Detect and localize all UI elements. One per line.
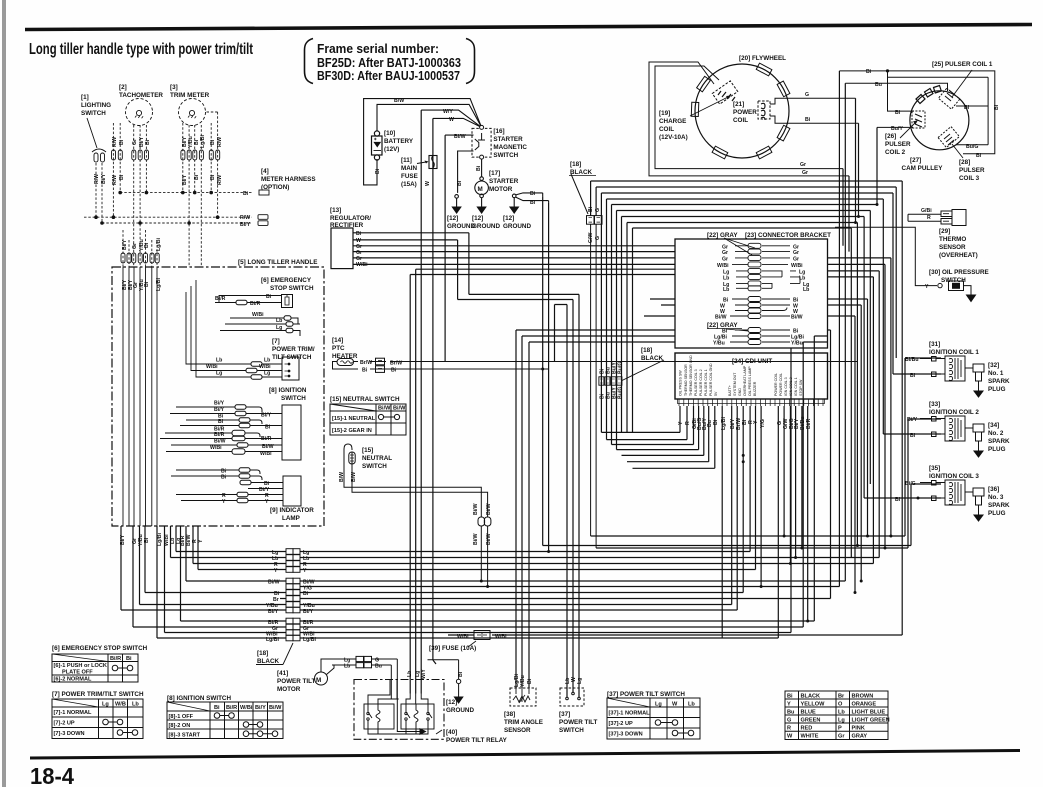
svg-text:Bi/R: Bi/R [250, 301, 261, 307]
svg-text:SENSOR: SENSOR [939, 244, 966, 251]
[18] BLACK connector stack near CDI [599, 360, 664, 385]
svg-text:R/W: R/W [112, 137, 118, 147]
svg-text:Gr: Gr [800, 162, 806, 168]
svg-text:GROUND: GROUND [472, 223, 500, 230]
bottom rule [30, 751, 1020, 759]
svg-text:Bi/Y: Bi/Y [261, 413, 272, 419]
svg-text:R/W: R/W [217, 137, 223, 147]
svg-text:W/B: W/B [115, 702, 126, 708]
svg-text:M: M [478, 186, 483, 193]
svg-text:Lg/Bi: Lg/Bi [156, 277, 162, 291]
svg-text:Lb: Lb [803, 287, 809, 293]
wire row199 [607, 199, 884, 377]
svg-text:[1]: [1] [81, 94, 89, 101]
svg-text:LAMP: LAMP [282, 515, 300, 522]
svg-text:[9] INDICATOR: [9] INDICATOR [270, 507, 314, 514]
svg-text:SPARK: SPARK [988, 378, 1010, 385]
svg-text:Lb: Lb [723, 275, 729, 281]
wire charge Gr verticals [843, 169, 849, 252]
svg-text:Lb: Lb [407, 671, 413, 677]
svg-text:Y: Y [265, 499, 269, 505]
svg-text:Y/Bu: Y/Bu [713, 341, 725, 347]
svg-text:PINK: PINK [852, 726, 865, 732]
svg-text:PULSER: PULSER [885, 141, 911, 148]
svg-text:POWER TRIM/: POWER TRIM/ [272, 346, 315, 353]
wire Bi/Y trim [182, 123, 184, 193]
svg-text:GROUND: GROUND [446, 707, 474, 714]
svg-text:Frame serial number:: Frame serial number: [317, 42, 439, 56]
CDI wire labels below [678, 416, 812, 430]
svg-text:[23] CONNECTOR BRACKET: [23] CONNECTOR BRACKET [745, 232, 831, 239]
svg-text:G: G [805, 92, 809, 98]
svg-text:Bi/W: Bi/W [268, 580, 280, 586]
svg-text:[16]: [16] [493, 128, 504, 135]
svg-text:IGNITION COIL 2: IGNITION COIL 2 [929, 409, 979, 416]
svg-text:[6]-2 NORMAL: [6]-2 NORMAL [54, 677, 92, 683]
starter motor M1 [475, 159, 489, 198]
svg-text:Lg: Lg [102, 702, 109, 708]
svg-text:PULSER: PULSER [959, 167, 985, 174]
top staircase rows from CDI area to right bundle [591, 181, 903, 432]
svg-text:Br/W: Br/W [390, 361, 402, 367]
wire Bi trim [194, 125, 196, 193]
svg-text:Bi: Bi [356, 231, 362, 237]
svg-text:BLUE: BLUE [801, 710, 816, 716]
svg-text:SYSTEM OUT: SYSTEM OUT [733, 372, 737, 396]
bracket right turndowns [828, 258, 891, 536]
svg-text:TRIM ANGLE: TRIM ANGLE [504, 719, 543, 726]
svg-text:Bl/W: Bl/W [454, 134, 466, 140]
svg-text:[10]: [10] [384, 130, 395, 137]
svg-text:Bi/R: Bi/R [261, 436, 272, 442]
wire Bi/Y lighting [101, 163, 103, 223]
svg-text:[15]-2 GEAR IN: [15]-2 GEAR IN [332, 428, 372, 434]
wire Bi from switch to ground [458, 151, 474, 193]
svg-text:IGN COIL 1: IGN COIL 1 [794, 377, 798, 396]
svg-text:Lg: Lg [216, 371, 222, 377]
svg-text:Bi: Bi [530, 200, 536, 206]
svg-text:CHARGE: CHARGE [659, 118, 686, 125]
svg-text:PULSER COIL 3: PULSER COIL 3 [694, 369, 698, 396]
color legend table [785, 691, 888, 740]
svg-text:POWER COIL: POWER COIL [779, 373, 783, 396]
top rule [25, 25, 1032, 30]
svg-text:Bi/W: Bi/W [393, 406, 406, 412]
svg-text:No. 3: No. 3 [988, 494, 1004, 501]
svg-text:BATT+: BATT+ [728, 385, 732, 396]
wire row632 W/Bi [165, 526, 792, 633]
svg-text:Lg/Bi: Lg/Bi [266, 637, 280, 643]
svg-text:[12]: [12] [447, 215, 458, 222]
svg-text:MOTOR: MOTOR [277, 686, 301, 693]
svg-text:[19]: [19] [659, 110, 670, 117]
svg-text:Bi: Bi [530, 191, 536, 197]
starter magnetic switch K1 [472, 125, 491, 159]
ignition coil 2 [920, 416, 973, 441]
svg-text:[8]-2 ON: [8]-2 ON [169, 723, 191, 729]
svg-text:Bi/W: Bi/W [715, 315, 727, 321]
wire v870 [869, 211, 871, 485]
svg-text:Gr: Gr [132, 139, 138, 145]
thermo sensor TS [908, 210, 966, 226]
svg-text:[7]-1 NORMAL: [7]-1 NORMAL [54, 710, 92, 716]
ground G1 [452, 195, 460, 213]
wire row228 [633, 228, 852, 432]
svg-text:POWER TILT: POWER TILT [277, 678, 316, 685]
pulser coil 1 [938, 88, 959, 109]
svg-text:G/Bi: G/Bi [921, 208, 932, 214]
svg-text:TACHOMETER: TACHOMETER [119, 92, 163, 99]
main fuse F1 [429, 156, 437, 169]
svg-text:BATTERY: BATTERY [384, 138, 414, 145]
wire row598 Br [280, 598, 831, 600]
wire G/W row [591, 181, 903, 216]
lighting switch SW1 [81, 94, 111, 162]
svg-text:Bi/R: Bi/R [806, 418, 812, 429]
wire row627 Gr [133, 526, 803, 627]
svg-text:Bi/W: Bi/W [378, 406, 391, 412]
svg-text:Bi/R: Bi/R [215, 296, 226, 302]
bracket left stubs [644, 299, 675, 316]
svg-text:PTC: PTC [332, 345, 345, 352]
right vertical bundle [410, 71, 941, 697]
Bi pair verticals [543, 196, 549, 551]
svg-text:Bi: Bi [713, 419, 719, 425]
svg-text:[22] GRAY: [22] GRAY [707, 322, 738, 329]
ground G3 [510, 193, 549, 213]
svg-text:W/Bi: W/Bi [259, 364, 271, 370]
connector bracket box [675, 239, 828, 348]
svg-text:Y: Y [787, 702, 791, 708]
ignition coil Bi returns [864, 374, 941, 498]
svg-text:Br: Br [838, 694, 845, 700]
svg-text:Bi/W: Bi/W [262, 444, 274, 450]
svg-text:Bu: Bu [875, 82, 882, 88]
svg-text:IGN COIL 3: IGN COIL 3 [784, 377, 788, 396]
power tilt switch verticals [469, 294, 579, 697]
svg-text:Bi/R: Bi/R [226, 705, 237, 711]
pulser wires [839, 71, 994, 154]
svg-text:LIGHTING: LIGHTING [81, 102, 111, 109]
connector pills above tiller box [121, 253, 125, 263]
svg-text:[20] FLYWHEEL: [20] FLYWHEEL [739, 55, 786, 62]
svg-text:[4]: [4] [261, 168, 269, 175]
svg-text:Lg: Lg [577, 678, 583, 684]
wire R/W lighting [95, 163, 97, 217]
CDI pin labels [679, 355, 804, 396]
svg-text:Y/Bu: Y/Bu [791, 341, 803, 347]
svg-text:IGNITION COIL 1: IGNITION COIL 1 [929, 349, 979, 356]
wire row586 Y/G [300, 586, 839, 588]
svg-text:SWITCH: SWITCH [941, 277, 966, 284]
svg-text:[7] POWER TRIM/TILT SWITCH: [7] POWER TRIM/TILT SWITCH [52, 691, 144, 698]
svg-text:[15]: [15] [362, 447, 373, 454]
svg-text:Bi: Bi [214, 705, 220, 711]
svg-text:W/Bi: W/Bi [495, 634, 507, 640]
svg-text:COIL: COIL [733, 117, 748, 124]
svg-text:SPARK: SPARK [988, 502, 1010, 509]
svg-text:BLACK: BLACK [641, 355, 663, 362]
svg-text:MAIN: MAIN [401, 165, 418, 172]
svg-text:Bi: Bi [787, 694, 793, 700]
svg-text:Bi: Bi [805, 117, 811, 123]
svg-text:Gr: Gr [722, 250, 728, 256]
svg-text:O: O [838, 702, 843, 708]
svg-text:Bi/Y: Bi/Y [122, 239, 128, 250]
svg-text:[21]: [21] [733, 101, 744, 108]
wire power coil G Bi verticals [856, 98, 859, 222]
svg-text:Bi: Bi [895, 110, 901, 116]
svg-text:GRAY: GRAY [852, 734, 868, 740]
spark plug 3 [973, 488, 984, 521]
svg-text:Y: Y [198, 539, 204, 543]
svg-text:[12]: [12] [503, 215, 514, 222]
wire row557 Lb [171, 526, 880, 558]
svg-text:[6] EMERGENCY STOP SWITCH: [6] EMERGENCY STOP SWITCH [52, 645, 148, 652]
svg-text:Bu/G: Bu/G [618, 362, 624, 374]
svg-text:PULSER COIL 2: PULSER COIL 2 [699, 369, 703, 396]
svg-text:SWITCH: SWITCH [493, 152, 518, 159]
svg-text:LIGHT GREEN: LIGHT GREEN [852, 718, 890, 724]
CDI pins [678, 399, 825, 406]
svg-text:POWER: POWER [733, 109, 757, 116]
svg-text:[37]-3 DOWN: [37]-3 DOWN [609, 732, 643, 738]
svg-text:W: W [672, 702, 678, 708]
svg-text:Bi: Bi [303, 591, 309, 597]
central connector stack [18] BLACK [286, 549, 300, 641]
svg-text:PULSER COIL 1: PULSER COIL 1 [704, 369, 708, 396]
svg-text:Bi: Bi [144, 242, 150, 248]
svg-text:Lg: Lg [655, 702, 662, 708]
harness connectors right [259, 190, 269, 195]
wire fuse39 W/Bi row [448, 634, 902, 636]
svg-text:Lb: Lb [276, 318, 282, 324]
svg-text:Bi/Y: Bi/Y [101, 173, 107, 184]
svg-text:Lb: Lb [723, 287, 729, 293]
svg-text:Bi: Bi [458, 671, 464, 677]
svg-text:Gr: Gr [793, 250, 799, 256]
pulser coil 3 [938, 127, 959, 148]
svg-text:[27]: [27] [910, 157, 921, 164]
spark plug 1 [973, 364, 984, 397]
svg-text:Lb: Lb [688, 702, 695, 708]
svg-text:[8]-3 START: [8]-3 START [169, 733, 201, 739]
svg-text:[8] IGNITION SWITCH: [8] IGNITION SWITCH [167, 695, 231, 702]
wire row551 Lg [176, 526, 750, 552]
svg-text:Bi: Bi [994, 104, 1000, 110]
battery B1 [372, 131, 383, 160]
ignition coil feeds [905, 358, 941, 536]
svg-text:RED: RED [801, 726, 813, 732]
svg-text:W: W [449, 117, 454, 123]
svg-text:POWER TILT RELAY: POWER TILT RELAY [446, 737, 508, 744]
wire v839 pulser Bi [838, 71, 840, 587]
svg-text:Gr: Gr [802, 170, 808, 176]
svg-text:STOP SWITCH: STOP SWITCH [270, 285, 314, 292]
wire row193 [601, 193, 893, 377]
svg-text:Bi/Y: Bi/Y [255, 705, 266, 711]
svg-text:Lb: Lb [264, 358, 270, 364]
svg-text:[13]: [13] [330, 207, 341, 214]
svg-text:[35]: [35] [929, 465, 940, 472]
svg-text:SWITCH: SWITCH [281, 395, 306, 402]
wire W/Y [421, 110, 481, 127]
svg-text:[36]: [36] [988, 486, 999, 493]
svg-text:SWITCH: SWITCH [559, 727, 584, 734]
svg-text:G: G [787, 718, 791, 724]
svg-text:[41]: [41] [277, 670, 288, 677]
svg-text:[7]-2 UP: [7]-2 UP [54, 721, 75, 727]
svg-text:W/Y: W/Y [421, 669, 427, 679]
wire row563 R [193, 526, 873, 564]
fuse 39 [474, 631, 490, 640]
ignition coil 3 [916, 480, 973, 505]
svg-text:Lb: Lb [216, 358, 222, 364]
svg-text:Bi: Bi [210, 174, 216, 180]
svg-text:[12]: [12] [446, 699, 457, 706]
svg-text:Bi: Bi [588, 206, 594, 212]
svg-text:THERMO SENSOR: THERMO SENSOR [684, 364, 688, 396]
power tilt switch [37] [560, 688, 584, 706]
svg-text:[37]: [37] [559, 711, 570, 718]
cam pulley [910, 86, 969, 150]
svg-text:Bi: Bi [866, 69, 872, 75]
wire Y/Bu trim [188, 125, 190, 267]
svg-text:Bi: Bi [119, 174, 125, 180]
svg-text:COIL 3: COIL 3 [959, 175, 980, 182]
svg-text:[7]: [7] [272, 338, 280, 345]
svg-text:BUZZER: BUZZER [753, 381, 757, 396]
svg-text:STOP SW: STOP SW [799, 379, 803, 396]
svg-text:Bi/Y: Bi/Y [303, 609, 314, 615]
meter wires dashed verticals [84, 112, 253, 267]
svg-text:Lb: Lb [799, 275, 805, 281]
flywheel FW [691, 63, 790, 159]
svg-text:B/W: B/W [339, 472, 345, 482]
svg-text:BLACK: BLACK [801, 694, 821, 700]
wire row638 Lg/Bi [157, 526, 778, 638]
tiller box bottom labels [120, 532, 204, 546]
svg-text:G: G [595, 236, 601, 240]
svg-text:Lb: Lb [344, 664, 350, 670]
svg-text:GREEN: GREEN [801, 718, 821, 724]
left nest verticals to trim sensor [516, 330, 675, 688]
svg-text:[18]: [18] [257, 650, 268, 657]
svg-text:STARTER: STARTER [493, 136, 523, 143]
svg-text:(15A): (15A) [401, 181, 417, 188]
svg-text:[5] LONG TILLER HANDLE: [5] LONG TILLER HANDLE [238, 259, 317, 266]
svg-text:SENSOR: SENSOR [504, 727, 531, 734]
svg-text:Bi: Bi [221, 475, 227, 481]
svg-text:Gr: Gr [838, 734, 845, 740]
svg-text:Bi/W: Bi/W [791, 315, 803, 321]
svg-text:Y: Y [274, 568, 278, 574]
svg-text:[40]: [40] [446, 729, 457, 736]
svg-text:SWITCH: SWITCH [81, 110, 106, 117]
svg-text:No. 1: No. 1 [988, 370, 1004, 377]
svg-text:Bi: Bi [391, 368, 397, 374]
svg-text:BF25D: After BATJ-1000363: BF25D: After BATJ-1000363 [317, 56, 461, 70]
frame serial number box [305, 39, 475, 84]
svg-text:Bi: Bi [126, 656, 132, 662]
svg-text:[11]: [11] [401, 157, 412, 164]
svg-text:Bi/Y: Bi/Y [240, 222, 251, 228]
svg-text:W/Bi: W/Bi [206, 364, 218, 370]
regulator/rectifier U13 [331, 228, 353, 269]
svg-text:(12V-10A): (12V-10A) [659, 134, 688, 141]
wire v893 [892, 193, 894, 374]
regulator output wires [353, 233, 675, 265]
wire v857 [856, 223, 858, 546]
svg-text:Bi: Bi [976, 153, 982, 159]
svg-text:Bi: Bi [210, 139, 216, 145]
svg-text:(OVERHEAT): (OVERHEAT) [939, 252, 978, 259]
wire G row [596, 187, 896, 216]
wire v902 W/Bi [901, 181, 903, 635]
svg-text:R: R [927, 215, 931, 221]
svg-text:[8]-1 OFF: [8]-1 OFF [169, 714, 194, 720]
CDI pin verticals down [601, 377, 680, 432]
tiller input verticals [123, 267, 157, 526]
svg-text:[17]: [17] [489, 170, 500, 177]
svg-text:W: W [787, 734, 793, 740]
svg-text:[6] EMERGENCY: [6] EMERGENCY [261, 277, 312, 284]
svg-text:Bi: Bi [265, 425, 271, 431]
svg-text:[3]: [3] [170, 84, 178, 91]
ignition coil 1 [920, 356, 973, 381]
svg-text:[6]-1 PUSH or LOCK: [6]-1 PUSH or LOCK [54, 663, 107, 669]
wire row569 Y [198, 526, 756, 570]
svg-text:Bu: Bu [787, 710, 795, 716]
wire row581 Bi/W [186, 526, 845, 581]
svg-text:[22] GRAY: [22] GRAY [707, 232, 738, 239]
wire v845 pulser Bu [844, 83, 846, 581]
svg-text:Br/W: Br/W [360, 360, 372, 366]
tiller handle box [112, 267, 324, 526]
svg-text:Lg/Bi: Lg/Bi [156, 237, 162, 251]
wire battery B/W loop [377, 104, 482, 131]
svg-text:BROWN: BROWN [852, 694, 874, 700]
svg-text:18-4: 18-4 [30, 763, 74, 787]
power tilt relay box [40] [354, 680, 444, 740]
svg-text:R: R [787, 726, 791, 732]
svg-text:Lg/Bi: Lg/Bi [303, 637, 317, 643]
svg-text:COIL 2: COIL 2 [885, 149, 906, 156]
svg-text:METER HARNESS: METER HARNESS [261, 176, 316, 183]
svg-text:SWITCH: SWITCH [362, 463, 387, 470]
neutral Bi/W connectors pair [478, 517, 491, 587]
svg-text:Bi/Y: Bi/Y [268, 609, 279, 615]
wire Gr tacho [133, 125, 135, 267]
wire Bi tacho [119, 123, 121, 193]
wire row216 [622, 217, 865, 433]
svg-text:STARTER: STARTER [489, 178, 519, 185]
charge coil CC [699, 62, 738, 104]
svg-text:Bi/Y: Bi/Y [182, 174, 188, 185]
svg-text:FUSE: FUSE [401, 173, 418, 180]
svg-text:PLUG: PLUG [988, 386, 1006, 393]
svg-text:RECTIFIER: RECTIFIER [330, 222, 364, 229]
svg-text:[34]: [34] [988, 422, 999, 429]
svg-text:IGNITION COIL 3: IGNITION COIL 3 [929, 473, 979, 480]
svg-text:MAGNETIC: MAGNETIC [493, 144, 527, 151]
svg-text:Bi/W: Bi/W [473, 503, 479, 515]
wire Lg/Bi trim [200, 125, 202, 267]
svg-text:THERMO: THERMO [939, 236, 966, 243]
svg-text:Bi: Bi [119, 139, 125, 145]
svg-text:Bu/Y: Bu/Y [891, 126, 903, 132]
svg-text:[37] POWER TILT SWITCH: [37] POWER TILT SWITCH [607, 691, 685, 698]
